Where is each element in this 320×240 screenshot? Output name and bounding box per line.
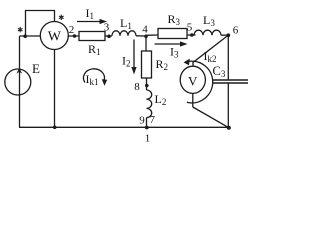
svg-text:8: 8	[134, 81, 140, 93]
current arrow I1	[77, 21, 101, 23]
wattmeter bottom lead wire	[54, 36, 56, 127]
svg-text:I1: I1	[86, 6, 95, 21]
svg-text:E: E	[32, 61, 40, 76]
resistor R2	[142, 51, 152, 78]
svg-text:4: 4	[142, 24, 148, 36]
svg-text:Ik1: Ik1	[86, 72, 99, 87]
node 4	[144, 35, 148, 39]
resistor R1	[79, 32, 105, 41]
wire R2 to node 8	[146, 78, 148, 90]
svg-text:R1: R1	[88, 42, 101, 57]
wire bottom rail node 1	[19, 126, 229, 128]
wire L1 to node4	[136, 35, 146, 37]
wire diagonal node6 to voltmeter	[193, 35, 229, 67]
node 6	[226, 33, 230, 37]
svg-text:I3: I3	[170, 45, 179, 60]
svg-text:V: V	[188, 74, 198, 89]
svg-text:Ik2: Ik2	[204, 49, 217, 64]
svg-text:L1: L1	[120, 16, 132, 31]
inductor L2	[147, 90, 152, 118]
svg-text:3: 3	[104, 22, 110, 34]
wire top main horizontal	[20, 35, 80, 37]
junction dot W bottom rail	[53, 126, 57, 130]
inductor L1	[112, 31, 136, 36]
wire node3 to L1	[105, 35, 112, 37]
svg-text:R2: R2	[156, 57, 169, 72]
wire node4 to R3	[146, 34, 158, 36]
current arrow I3	[155, 43, 182, 45]
svg-text:R3: R3	[168, 12, 181, 27]
wire node4 down to R2	[145, 36, 147, 51]
svg-text:7: 7	[150, 114, 156, 126]
svg-text:I2: I2	[122, 54, 131, 69]
junction dot bottom right	[227, 126, 231, 130]
asterisk right	[59, 15, 64, 20]
svg-text:W: W	[48, 30, 62, 45]
current arrow I2	[133, 40, 135, 69]
svg-text:1: 1	[145, 133, 151, 145]
capacitor C3 plates	[212, 79, 248, 81]
wire L3 to node6	[221, 34, 229, 36]
resistor R3	[158, 29, 187, 39]
wire right vertical lower (C3 to bottom rail)	[227, 84, 229, 129]
voltmeter circle V	[180, 66, 205, 93]
svg-text:2: 2	[69, 24, 75, 36]
wattmeter voltage loop wire	[26, 11, 55, 37]
svg-text:9: 9	[139, 115, 145, 127]
node 2	[73, 34, 77, 38]
wire R3 to L3	[187, 34, 196, 36]
node 8	[145, 84, 149, 88]
node 9-7 junction dot	[145, 126, 149, 130]
svg-text:C3: C3	[213, 64, 226, 79]
node 3	[107, 35, 111, 39]
inductor L3	[194, 30, 221, 35]
svg-text:L3: L3	[203, 13, 215, 28]
svg-text:L2: L2	[155, 92, 167, 107]
wire diagonal voltmeter to bottom right corner	[193, 107, 229, 128]
node 5	[190, 33, 194, 37]
svg-text:6: 6	[233, 25, 239, 37]
wattmeter U1 circle W	[40, 22, 68, 50]
circulating arrow Ik1 arc	[83, 69, 104, 83]
circulating arrow Ik2 arc	[187, 61, 213, 103]
wire left vertical (E branch)	[19, 36, 21, 127]
junction dot top-left	[23, 34, 27, 38]
voltmeter bottom lead	[192, 93, 194, 107]
wire right vertical upper (node6 to C3)	[227, 35, 229, 80]
source E circle	[5, 69, 31, 95]
svg-text:5: 5	[187, 22, 193, 34]
wire L2 to bottom rail	[146, 118, 148, 128]
source E arrow	[16, 68, 22, 74]
asterisk left	[18, 27, 23, 32]
